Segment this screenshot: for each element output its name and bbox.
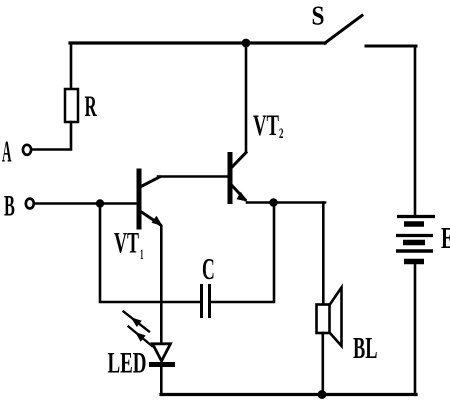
transistor VT1 collector stroke [140, 177, 160, 187]
wire resistor bottom lead to terminal A [32, 122, 71, 150]
capacitor C plates [202, 286, 210, 317]
LED light arrow 1 [124, 312, 153, 347]
wire VT1 emitter down to LED [160, 226, 163, 344]
node junction top rail / VT2 collector [242, 39, 251, 48]
svg-text:C: C [202, 251, 215, 286]
terminal A [23, 145, 31, 155]
svg-text:B: B [4, 190, 15, 223]
LED diode triangle [153, 344, 171, 361]
wire right rail upper [414, 46, 417, 215]
transistor VT2 base bar [228, 155, 233, 202]
wire VT2 emitter to speaker branch [247, 201, 325, 204]
transistor VT2 emitter stroke with arrow [231, 185, 245, 200]
svg-text:S: S [312, 1, 325, 31]
svg-text:VT: VT [253, 109, 279, 142]
wire top rail [70, 41, 325, 44]
svg-text:BL: BL [353, 330, 378, 365]
battery E [396, 217, 435, 262]
svg-text:2: 2 [279, 126, 284, 142]
svg-text:VT: VT [114, 227, 139, 260]
svg-text:1: 1 [140, 247, 144, 263]
node junction bottom (speaker branch) [318, 390, 327, 399]
wire B junction down and right to capacitor [100, 204, 200, 303]
LED cathode bar [152, 362, 173, 367]
node junction B branch [96, 199, 104, 207]
wire bottom rail [161, 393, 416, 396]
svg-text:R: R [85, 90, 97, 123]
svg-text:LED: LED [108, 347, 147, 380]
wire down to speaker [322, 203, 325, 305]
node junction emitter / capacitor branch [269, 198, 278, 207]
wire terminal B to VT1 base [35, 202, 137, 205]
switch S blade [325, 16, 362, 44]
speaker BL horn [330, 288, 342, 347]
wire capacitor right plate to emitter node [211, 204, 274, 302]
resistor R [65, 89, 78, 122]
terminal B [26, 199, 34, 209]
svg-text:A: A [2, 134, 12, 169]
transistor VT2 collector stroke [232, 153, 247, 168]
wire LED to bottom rail [160, 366, 163, 394]
svg-text:E: E [441, 220, 450, 255]
transistor VT1 base bar [137, 171, 142, 227]
speaker BL body [317, 305, 330, 334]
wire resistor top lead [70, 43, 73, 90]
wire VT2 collector up to top rail [245, 43, 248, 152]
transistor VT1 emitter stroke with arrow [140, 211, 160, 225]
wire right rail lower [414, 264, 417, 394]
wire VT1 collector to VT2 base [158, 175, 228, 178]
wire speaker to bottom rail [321, 333, 324, 394]
LED light arrow 2 [129, 327, 153, 347]
wire switch right contact [366, 45, 416, 48]
